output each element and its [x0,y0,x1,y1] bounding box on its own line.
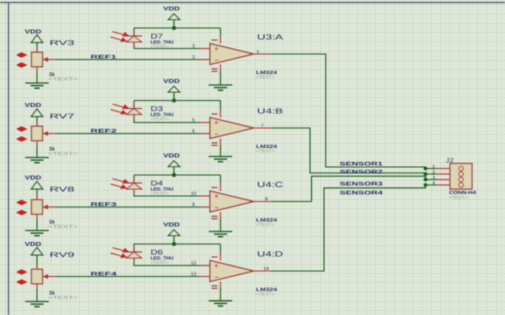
svg-text:RV3: RV3 [50,40,75,47]
junction VDD on rail [172,173,176,177]
wire LED branch vertical and to op-amp + input [134,244,200,266]
svg-text:<TEXT>: <TEXT> [48,77,79,82]
svg-text:−: − [215,131,219,138]
svg-text:9: 9 [192,202,195,208]
svg-text:J2: J2 [446,158,454,165]
svg-text:REF4: REF4 [91,271,117,277]
svg-text:SENSOR4: SENSOR4 [340,191,383,197]
svg-text:VDD: VDD [163,6,180,12]
svg-text:U4:D: U4:D [257,250,284,259]
svg-text:VDD: VDD [25,29,42,35]
connector pin 3 [432,175,463,182]
svg-text:<TEXT>: <TEXT> [48,295,79,300]
svg-text:<TEXT>: <TEXT> [151,44,170,49]
ground (pot RV3) [25,72,49,89]
wire SENSOR1 from op-amp output to connector [271,54,437,169]
pot interactive arrow up [16,126,28,131]
svg-text:VDD: VDD [25,242,42,248]
wire LED branch vertical and to op-amp + input [134,175,200,196]
svg-text:+: + [214,120,218,127]
LED light arrows [111,179,130,189]
svg-text:<TEXT>: <TEXT> [449,195,468,200]
svg-text:<TEXT>: <TEXT> [48,224,79,229]
svg-text:2: 2 [192,54,195,60]
wire net REF2 pot wiper to op-amp [55,133,200,135]
wire SENSOR4 from op-amp output to connector [271,185,437,271]
potentiometer RV9 1k [32,252,79,300]
junction at connector jog [424,167,428,171]
svg-text:4: 4 [432,181,435,187]
svg-text:<TEXT>: <TEXT> [256,222,275,227]
LED light arrows [111,248,130,258]
pot interactive arrow up [16,269,28,274]
wire VDD rail to op-amp V+ [134,243,221,245]
connector pin 2 [432,170,463,177]
svg-text:VDD: VDD [163,222,180,228]
LED light arrows [111,32,130,42]
svg-text:2: 2 [432,170,435,176]
pot interactive arrow down [16,62,28,67]
svg-text:REF3: REF3 [91,202,117,208]
power symbol VDD (pot RV3) [25,29,43,52]
svg-text:REF2: REF2 [91,128,117,134]
svg-text:13: 13 [191,271,197,277]
potentiometer RV7 1k [32,114,79,156]
svg-text:1: 1 [257,49,260,55]
junction VDD on rail [172,26,176,30]
junction VDD on rail [172,99,176,103]
svg-text:VDD: VDD [163,153,180,159]
potentiometer RV8 1k [32,187,79,229]
power symbol VDD (pot RV9) [25,242,43,269]
wire op-amp V+ to rail [220,28,222,36]
connector pin 1 [432,164,463,171]
wire LED branch vertical and to op-amp + input [134,101,200,123]
LED light arrows [111,104,130,114]
svg-text:<TEXT>: <TEXT> [151,117,170,122]
connector pin 4 [432,181,463,188]
svg-text:SENSOR3: SENSOR3 [340,182,383,188]
power symbol VDD (LED D3 rail) [163,79,180,101]
wire VDD rail to op-amp V+ [134,174,221,176]
ground (pot RV7) [25,146,49,163]
op-amp U3:A LM324 [200,33,283,80]
pot interactive arrow down [16,210,28,215]
svg-text:U4:B: U4:B [257,107,283,116]
svg-text:U3:A: U3:A [257,33,283,42]
op-amp U4:D LM324 [200,250,284,297]
svg-text:RV9: RV9 [50,252,75,259]
junction at connector jog [424,172,428,176]
ground (op-amp U4:C) [209,218,233,237]
svg-text:VDD: VDD [163,79,180,85]
svg-text:−: − [215,57,219,64]
svg-text:SENSOR2: SENSOR2 [340,169,383,175]
sheet border left edge [8,3,10,315]
svg-text:<TEXT>: <TEXT> [256,149,275,154]
svg-text:REF1: REF1 [91,54,117,60]
svg-text:RV7: RV7 [50,114,75,121]
svg-text:−: − [215,205,219,212]
op-amp U4:B LM324 [200,107,283,154]
pot interactive arrow up [16,200,28,205]
svg-text:5: 5 [192,117,195,123]
ground (pot RV8) [25,219,49,236]
connector J2 CONN-H4 [446,158,476,201]
pot interactive arrow down [16,279,28,284]
power symbol VDD (pot RV7) [25,103,43,126]
svg-text:<TEXT>: <TEXT> [151,260,170,265]
wire LED branch vertical and to op-amp + input [134,28,200,49]
ground (op-amp U4:D) [209,288,233,307]
wire VDD rail to op-amp V+ [134,27,221,29]
wire op-amp V+ to rail [220,101,222,110]
svg-text:8: 8 [265,197,268,203]
LED D7 LED_THU (light sensor) [126,31,174,50]
svg-text:RV8: RV8 [50,187,75,194]
junction at connector jog [424,183,428,187]
svg-text:<TEXT>: <TEXT> [151,191,170,196]
ground (op-amp U3:A) [209,71,233,91]
ground (pot RV9) [25,289,49,307]
wire op-amp V+ to rail [220,175,222,183]
svg-text:<TEXT>: <TEXT> [256,75,275,80]
LED D4 LED_THU (light sensor) [126,178,174,197]
svg-text:10: 10 [191,191,197,197]
svg-text:12: 12 [191,260,197,266]
op-amp U4:C LM324 [200,180,284,227]
svg-text:14: 14 [264,266,270,272]
svg-text:<TEXT>: <TEXT> [48,151,79,156]
svg-text:+: + [214,194,218,201]
junction VDD on rail [172,242,176,246]
power symbol VDD (LED D6 rail) [163,222,180,244]
pot interactive arrow up [16,52,28,57]
power symbol VDD (LED D7 rail) [163,6,180,28]
svg-text:3: 3 [432,175,435,181]
wire net REF3 pot wiper to op-amp [55,206,200,208]
svg-text:−: − [215,274,219,281]
potentiometer RV3 1k [32,40,79,81]
svg-text:7: 7 [261,123,264,129]
wire net REF4 pot wiper to op-amp [55,276,200,278]
wire net REF1 pot wiper to op-amp [55,59,200,61]
wire op-amp V+ to rail [220,244,222,253]
wire VDD rail to op-amp V+ [134,100,221,102]
power symbol VDD (LED D4 rail) [163,153,180,175]
svg-text:<TEXT>: <TEXT> [256,292,275,297]
svg-text:VDD: VDD [25,176,42,182]
sheet border top edge [0,2,505,4]
pot interactive arrow down [16,136,28,141]
svg-text:VDD: VDD [25,103,42,109]
svg-text:U4:C: U4:C [257,180,284,189]
ground (op-amp U4:B) [209,145,233,162]
svg-text:6: 6 [192,128,195,134]
wire SENSOR2 from op-amp output to connector [271,128,437,174]
svg-text:SENSOR1: SENSOR1 [340,161,383,167]
svg-text:3: 3 [192,43,195,49]
LED D6 LED_THU (light sensor) [126,247,174,266]
svg-text:+: + [214,46,218,53]
wire SENSOR3 from op-amp output to connector [271,176,437,201]
junction at connector jog [424,178,428,182]
svg-text:+: + [214,263,218,270]
power symbol VDD (pot RV8) [25,176,43,200]
svg-text:1: 1 [432,164,435,170]
LED D3 LED_THU (light sensor) [126,103,174,122]
